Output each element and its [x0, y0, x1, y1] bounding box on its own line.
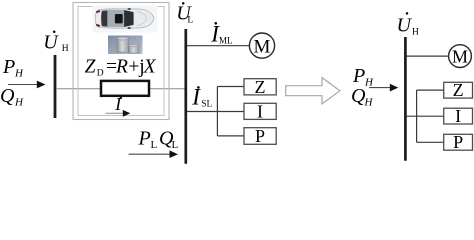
- svg-text:P: P: [255, 126, 265, 146]
- svg-text:+: +: [128, 56, 139, 77]
- resistor Z_D (impedance box): [101, 81, 149, 96]
- box Z (right): [444, 80, 473, 100]
- svg-text:Z: Z: [255, 77, 266, 97]
- svg-text:H: H: [412, 28, 419, 38]
- svg-text:Q: Q: [0, 85, 15, 107]
- wire left bus to resistor: [56, 88, 100, 90]
- arrow P_H Q_H into left bus: [8, 81, 46, 89]
- label I_SL: [191, 84, 212, 109]
- svg-text:P: P: [352, 65, 365, 87]
- node U_H label (left): [43, 31, 69, 54]
- arrow P_L Q_L into U_L bus: [129, 150, 178, 158]
- wire U_L to motor: [187, 45, 249, 47]
- wire resistor to middle bus: [149, 88, 186, 90]
- label P_L: [138, 128, 158, 152]
- svg-text:Z: Z: [453, 80, 464, 100]
- svg-text:P: P: [138, 128, 151, 150]
- node U_L label: [176, 2, 193, 25]
- svg-text:ML: ML: [219, 36, 233, 46]
- motor M (right): [449, 45, 472, 68]
- label I (current through Z_D): [114, 94, 122, 114]
- svg-text:L: L: [187, 16, 193, 26]
- busbar left (U_H): [54, 55, 57, 118]
- label Q_H (right): [351, 85, 374, 109]
- svg-text:H: H: [364, 77, 374, 89]
- svg-text:L: L: [172, 139, 179, 151]
- label I_ML: [210, 21, 232, 46]
- arrow I direction: [106, 110, 131, 117]
- svg-text:I: I: [191, 84, 201, 109]
- svg-text:P: P: [453, 132, 463, 152]
- svg-text:X: X: [143, 56, 157, 77]
- photo: cylinders (load device): [108, 36, 143, 55]
- svg-text:H: H: [14, 97, 24, 109]
- box I (middle): [244, 101, 276, 121]
- block arrow (equivalence): [286, 78, 340, 104]
- svg-text:U: U: [43, 32, 59, 54]
- label Q_L: [159, 128, 179, 152]
- box I (right): [444, 106, 473, 126]
- wire vertical connector (ZIP right): [416, 90, 418, 142]
- svg-text:M: M: [254, 36, 271, 57]
- frame inner: [78, 7, 164, 116]
- label P_H (left): [2, 56, 24, 80]
- svg-text:H: H: [14, 68, 24, 80]
- label P_H (right): [352, 65, 374, 89]
- svg-text:L: L: [151, 139, 158, 151]
- motor M (middle): [249, 33, 274, 58]
- photo: car top view: [93, 6, 158, 33]
- box P (middle): [244, 126, 276, 146]
- svg-text:R: R: [115, 56, 128, 77]
- svg-text:M: M: [452, 47, 468, 67]
- frame outer (equipment box): [73, 3, 169, 120]
- box P (right): [444, 132, 473, 152]
- wire stub to Z box (right): [417, 89, 444, 91]
- busbar right (U_H): [404, 37, 407, 161]
- svg-text:I: I: [455, 106, 461, 126]
- box Z (middle): [244, 77, 276, 97]
- label Z_D = R + jX: [85, 56, 157, 78]
- svg-text:Z: Z: [85, 56, 96, 77]
- svg-text:H: H: [62, 44, 69, 54]
- wire U_H to I box (right): [407, 115, 444, 117]
- wire vertical connector (ZIP middle): [216, 87, 218, 136]
- svg-text:U: U: [397, 15, 413, 37]
- busbar middle (U_L): [184, 29, 187, 164]
- svg-text:P: P: [2, 56, 15, 78]
- wire U_L to I box: [187, 111, 244, 113]
- arrow P_H Q_H into right bus: [369, 84, 398, 92]
- svg-text:SL: SL: [201, 100, 212, 110]
- wire stub to P box (right): [417, 141, 444, 143]
- svg-text:H: H: [364, 97, 374, 109]
- wire U_H to motor (right): [407, 55, 449, 57]
- svg-text:I: I: [257, 101, 263, 121]
- label Q_H (left): [0, 85, 24, 109]
- wire stub to Z box: [217, 86, 244, 88]
- wire stub to P box: [217, 135, 244, 137]
- svg-text:D: D: [97, 69, 104, 79]
- node U_H label (right): [397, 12, 420, 37]
